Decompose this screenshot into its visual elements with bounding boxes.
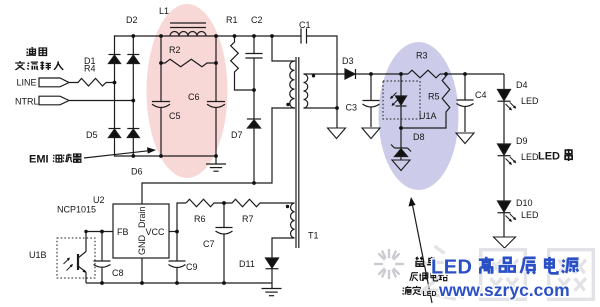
svg-text:NTRL: NTRL <box>15 97 39 107</box>
svg-text:C5: C5 <box>169 111 181 121</box>
label AC input CJK <box>15 47 63 70</box>
svg-text:LED: LED <box>521 152 539 162</box>
wire NTRL <box>69 100 133 102</box>
svg-text:R7: R7 <box>242 214 254 224</box>
svg-text:VCC: VCC <box>146 227 166 237</box>
diode D7 <box>253 90 255 119</box>
inductor L1 <box>170 23 206 36</box>
svg-text:LED: LED <box>521 96 539 106</box>
ground under C1 return <box>328 128 346 139</box>
svg-text:D9: D9 <box>516 136 528 146</box>
svg-text:Drain: Drain <box>137 206 147 228</box>
svg-text:D5: D5 <box>86 130 98 140</box>
svg-text:U2: U2 <box>93 195 105 205</box>
svg-text:L1: L1 <box>159 6 169 16</box>
svg-text:C3: C3 <box>346 103 358 113</box>
resistor R3 <box>408 70 440 78</box>
svg-text:LED: LED <box>521 210 539 220</box>
capacitor C4 <box>457 74 474 132</box>
svg-text:LED: LED <box>538 151 560 163</box>
ground under D8 <box>392 160 410 171</box>
svg-text:R4: R4 <box>84 64 96 74</box>
bridge left column <box>114 36 116 55</box>
svg-text:FB: FB <box>117 227 129 237</box>
IC U2 NCP1015 <box>113 204 169 258</box>
zener diode D8 <box>391 128 411 160</box>
wire secondary top <box>304 73 346 75</box>
svg-text:U1B: U1B <box>29 250 47 260</box>
svg-text:www.szryc.com: www.szryc.com <box>438 280 570 300</box>
wire primary bottom <box>272 107 295 109</box>
LED D4 <box>498 90 518 112</box>
ground under C4 <box>456 133 474 144</box>
feedback annotation arrow <box>409 197 433 303</box>
capacitor C6 <box>208 101 225 103</box>
capacitor C9 <box>169 232 186 284</box>
svg-text:R1: R1 <box>226 15 238 25</box>
svg-text:D10: D10 <box>516 198 533 208</box>
label simple feedback line3 <box>403 286 421 295</box>
ground under D11 <box>271 283 273 288</box>
diode D3 <box>345 69 356 79</box>
resistor R1 <box>231 36 254 90</box>
opto-coupler U1A dashed box <box>383 81 420 119</box>
watermark star logo <box>372 247 406 281</box>
svg-text:LED: LED <box>431 257 473 279</box>
svg-text:R3: R3 <box>416 51 428 61</box>
svg-text:D6: D6 <box>131 167 143 177</box>
LED D9 <box>498 144 518 166</box>
watermark grey glyphs <box>417 246 593 299</box>
capacitor C1 <box>300 29 302 43</box>
svg-text:C8: C8 <box>112 268 124 278</box>
wire aux winding bottom <box>272 238 295 258</box>
wire drain bus <box>142 108 272 204</box>
resistor R7 <box>224 199 295 207</box>
wire U2 FB pin <box>86 232 113 252</box>
capacitor C8 <box>94 232 111 284</box>
svg-text:D11: D11 <box>239 259 255 269</box>
capacitor C2 <box>253 36 255 54</box>
ground under C3 <box>362 128 380 139</box>
wire U2 GND pin <box>141 258 143 283</box>
svg-text:NCP1015: NCP1015 <box>57 205 96 215</box>
connector NTRL <box>39 96 69 105</box>
resistor R4 <box>69 78 115 86</box>
wire top bus <box>115 35 302 37</box>
wire secondary bottom <box>304 107 338 109</box>
feedback highlight ellipse <box>379 42 459 190</box>
LED string wire <box>503 74 505 237</box>
svg-text:C2: C2 <box>251 15 263 25</box>
resistor R6 <box>186 199 224 207</box>
connector LINE <box>39 78 69 87</box>
svg-text:LED: LED <box>423 291 437 298</box>
svg-text:D7: D7 <box>231 130 243 140</box>
diode D11 <box>266 258 279 283</box>
svg-text:U1A: U1A <box>419 111 437 121</box>
svg-text:T1: T1 <box>308 231 319 241</box>
svg-text:C1: C1 <box>299 20 311 30</box>
wire bottom ground bus <box>86 282 272 284</box>
opto-coupler U1A LED <box>389 74 407 128</box>
transformer T1 <box>290 57 308 248</box>
EMI filter highlight ellipse <box>147 4 228 178</box>
svg-text:EMI: EMI <box>29 154 49 166</box>
resistor R5 <box>401 74 450 128</box>
transformer phase dots <box>286 103 289 106</box>
capacitor C5 <box>153 101 170 103</box>
ground EMI filter <box>215 156 217 164</box>
capacitor C3 <box>363 74 380 127</box>
bridge right column <box>132 36 134 55</box>
transistor U1B opto <box>62 252 86 284</box>
opto-coupler U1B dashed box <box>57 238 95 278</box>
wire primary top riser <box>272 36 295 61</box>
wire bridge bottom rail <box>115 155 217 157</box>
label simple feedback line1 <box>416 257 437 267</box>
svg-text:D3: D3 <box>342 56 354 66</box>
svg-text:R5: R5 <box>428 92 440 102</box>
label LED string CJK <box>565 149 572 161</box>
svg-text:LINE: LINE <box>17 78 37 88</box>
ground under LED string <box>494 237 516 248</box>
svg-text:C4: C4 <box>475 90 487 100</box>
svg-text:D2: D2 <box>126 15 138 25</box>
svg-text:C9: C9 <box>186 262 198 272</box>
diode bridge D2 pair <box>109 55 140 64</box>
wire L1 stubs and R2 verticals <box>160 36 162 102</box>
svg-text:D8: D8 <box>413 132 425 142</box>
wire U2 VCC pin <box>169 231 177 233</box>
svg-text:GND: GND <box>137 235 147 256</box>
svg-text:D4: D4 <box>516 80 528 90</box>
svg-text:C6: C6 <box>188 92 200 102</box>
wire VCC riser to R6 <box>177 203 186 232</box>
wire output rail <box>356 70 505 78</box>
wire C1 to secondary return <box>307 36 338 127</box>
diode bridge D5 pair <box>109 129 140 138</box>
label simple feedback line2 <box>410 272 448 281</box>
svg-text:R6: R6 <box>194 214 206 224</box>
capacitor C7 <box>216 203 233 283</box>
resistor R2 <box>161 59 216 67</box>
LED D10 <box>498 201 518 223</box>
svg-text:C7: C7 <box>203 239 215 249</box>
svg-text:R2: R2 <box>169 45 181 55</box>
EMI label arrow <box>84 147 156 158</box>
